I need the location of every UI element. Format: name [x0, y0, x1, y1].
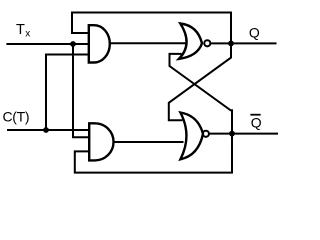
node junction Tx [70, 41, 76, 47]
output label Qbar [250, 114, 261, 131]
wire Q output [231, 42, 277, 44]
nor-gate U3 (top) [179, 24, 202, 59]
svg-text:C(T): C(T) [3, 108, 30, 124]
wire Tx input [6, 43, 88, 45]
svg-text:T: T [16, 22, 25, 38]
input label Tx [16, 22, 30, 40]
node Qbar junction [229, 131, 235, 137]
inverter bubble U3 [204, 40, 210, 46]
nor-gate U4 (bottom) [180, 113, 203, 160]
node Q junction [228, 41, 234, 47]
input label C(T) [3, 108, 30, 124]
node junction C(T) [43, 127, 49, 133]
wire cross Q to U4 upper input [169, 43, 231, 120]
wire Qbar output [232, 133, 278, 135]
and-gate U1 (top) [89, 25, 110, 62]
inverter bubble U4 [203, 131, 209, 137]
wire feedback Q to top AND (top rail) [72, 13, 231, 44]
wire U1 output to U3 input [109, 42, 186, 44]
and-gate U2 (bottom) [89, 123, 113, 160]
svg-text:Q: Q [249, 24, 260, 40]
wire U2 output to U4 input [114, 141, 184, 143]
wire cross Qbar to U3 lower input [170, 54, 233, 134]
wire Tx branch to bottom AND [73, 44, 90, 137]
svg-text:x: x [25, 29, 30, 40]
output label Q [249, 24, 260, 40]
wire C(T) input [7, 129, 90, 131]
wire U4 output to node Qbar [209, 133, 232, 135]
wire C branch to top AND [46, 55, 89, 131]
wire feedback Qbar to bottom AND (bottom rail) [75, 134, 232, 173]
wire U3 output to node Q [210, 42, 231, 44]
svg-text:Q: Q [251, 114, 262, 130]
